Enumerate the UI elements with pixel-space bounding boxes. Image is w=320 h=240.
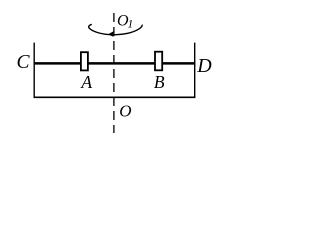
rotation arrowhead (points left along arc bottom) [108, 31, 114, 37]
svg-text:C: C [17, 52, 31, 73]
svg-text:1: 1 [128, 18, 134, 30]
block B (slider on rod) [155, 52, 162, 71]
frame left post [33, 43, 35, 98]
svg-text:B: B [154, 72, 165, 92]
svg-text:A: A [80, 72, 92, 92]
frame bottom bar [34, 96, 196, 98]
rotation axis OO1 (vertical dashed line) [113, 13, 115, 133]
frame right post [194, 43, 196, 98]
rod CD (horizontal rod) [34, 62, 196, 65]
svg-text:O: O [119, 101, 131, 120]
block A (slider on rod) [81, 52, 88, 70]
rotation direction arc (ellipse around axis) [89, 24, 143, 35]
svg-text:D: D [196, 55, 212, 77]
